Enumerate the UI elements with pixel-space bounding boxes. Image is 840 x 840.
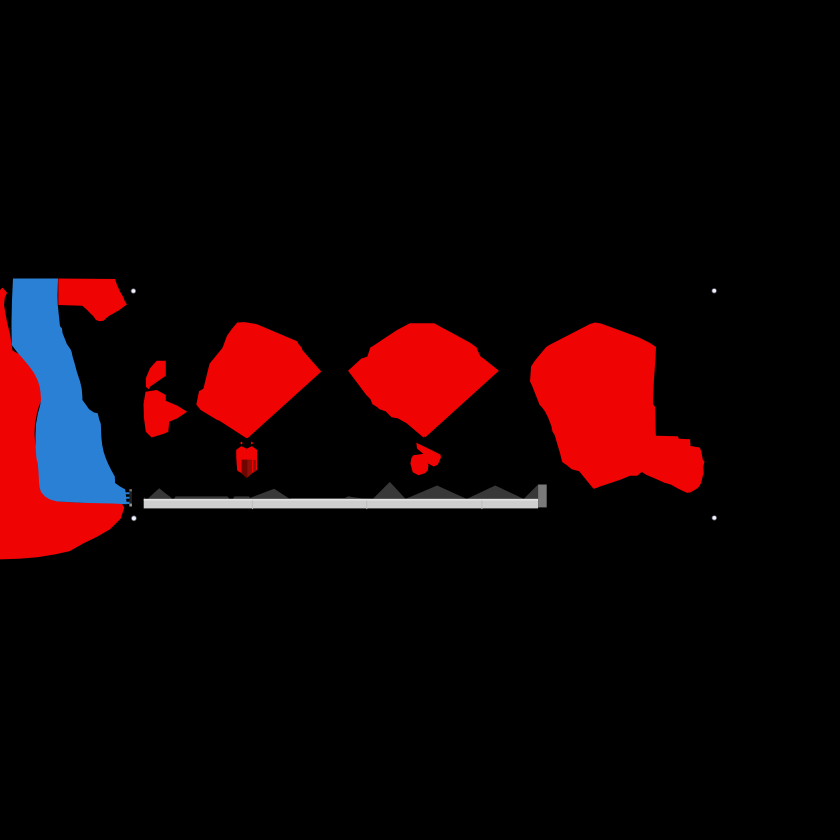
blue ribbon: [12, 279, 127, 505]
black diamond at fan 2 apex: [419, 437, 430, 448]
dark pole at ribbon end: [129, 489, 132, 506]
black band: [0, 278, 840, 559]
tassel of fan 1: [236, 446, 257, 478]
red fan 1: [196, 322, 321, 439]
white handle dot top-right: [712, 288, 717, 293]
blue stub 2 at ribbon end: [126, 497, 130, 499]
red fan 3: [530, 323, 705, 493]
blue stub 3 at ribbon end: [126, 502, 129, 504]
tassel 1 dark stripe center-right: [248, 460, 252, 478]
white handle dot bottom-left: [131, 515, 137, 521]
small red piece upper (left of fan 1): [146, 361, 166, 390]
dark gray ridge with mountains on bar: [144, 482, 538, 500]
pole bottom cap: [129, 504, 132, 507]
small red piece lower (left of fan 1): [144, 390, 188, 438]
red top-left block: [58, 279, 127, 322]
tassel 1 left nub: [240, 442, 243, 445]
blue stub 1 at ribbon end: [126, 492, 130, 494]
tassel 1 dark stripe center: [242, 460, 248, 478]
bar right end face: [538, 485, 547, 508]
bar seam 2: [366, 501, 367, 510]
tassel 2 upper piece: [416, 443, 441, 467]
light gray bar: [144, 499, 538, 509]
tassel 1 dark stripe right: [253, 460, 256, 472]
bar top highlight: [144, 499, 538, 501]
tassel 1 right nub: [250, 442, 253, 445]
bar seam 1: [252, 501, 253, 510]
bar seam 3: [481, 501, 482, 510]
tassel 2 lower piece: [410, 454, 428, 475]
black diamond at fan 1 apex: [242, 438, 251, 449]
red splat left: [0, 288, 124, 560]
white handle dot bottom-right: [712, 515, 717, 520]
white handle dot top-left: [131, 288, 136, 293]
pole top cap: [129, 489, 132, 491]
red fan 2: [348, 323, 499, 438]
